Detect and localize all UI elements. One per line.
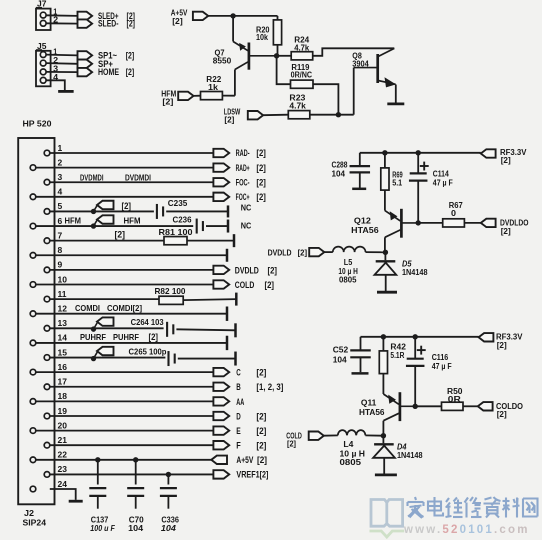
svg-text:HOME: HOME — [98, 67, 119, 77]
tag D — [213, 412, 229, 420]
wire Q8 base — [354, 67, 377, 69]
wire — [395, 85, 397, 103]
bar pin 15 — [234, 352, 237, 366]
svg-text:[1, 2, 3]: [1, 2, 3] — [256, 382, 283, 392]
svg-text:J2: J2 — [24, 508, 34, 518]
svg-text:20: 20 — [58, 420, 68, 430]
node R119/R23 junction — [336, 112, 341, 117]
capacitor C52 — [350, 349, 371, 351]
svg-text:NC: NC — [241, 220, 252, 230]
svg-text:0805: 0805 — [339, 274, 357, 284]
connector J2 pin 2 circle — [30, 165, 36, 171]
transistor Q11 base bar — [399, 392, 402, 421]
svg-text:DVDLD: DVDLD — [235, 265, 259, 275]
svg-text:PUHRF: PUHRF — [113, 332, 139, 342]
wire — [50, 210, 154, 212]
node C137 top — [95, 457, 100, 462]
bar pin 8 — [226, 249, 229, 262]
svg-text:[2]: [2] — [162, 97, 173, 107]
svg-text:17: 17 — [58, 377, 68, 387]
wire — [418, 222, 443, 224]
svg-text:[2]: [2] — [127, 19, 136, 29]
node pin15 — [91, 356, 96, 361]
svg-text:0: 0 — [451, 208, 456, 218]
connector J2 pin 3 circle — [44, 179, 50, 185]
bar pin 13 — [234, 323, 237, 337]
polarity + C116 — [417, 349, 426, 351]
tag F — [213, 441, 229, 449]
wire — [324, 434, 338, 436]
svg-text:C235: C235 — [168, 198, 188, 208]
wire — [167, 474, 169, 484]
connector J2 pin 14 circle — [30, 340, 36, 346]
svg-text:COMDI[2]: COMDI[2] — [107, 303, 142, 313]
connector J5 body — [36, 51, 51, 87]
svg-text:FOC+: FOC+ — [236, 192, 250, 202]
connector J2 pin 22 circle — [30, 457, 36, 463]
watermark hanzi xiu — [465, 497, 482, 518]
connector J2 pin 15 circle — [44, 355, 50, 361]
svg-text:AA: AA — [236, 397, 244, 407]
svg-text:SIP24: SIP24 — [23, 518, 47, 528]
svg-text:DVDLD: DVDLD — [268, 248, 292, 258]
svg-text:SLED-: SLED- — [98, 19, 119, 29]
capacitor C265 — [167, 351, 169, 366]
tag B — [213, 383, 229, 391]
svg-text:C52: C52 — [333, 345, 349, 355]
transistor Q7 base bar — [248, 43, 251, 70]
svg-text:7: 7 — [58, 230, 63, 240]
svg-text:[2]: [2] — [287, 438, 296, 448]
wire — [359, 153, 361, 166]
connector J7 pin 1 — [40, 12, 46, 18]
resistor R24 — [291, 52, 313, 60]
tag RF3.3V upper — [481, 149, 496, 157]
svg-text:4: 4 — [58, 187, 63, 197]
tag A+5V top — [193, 12, 208, 20]
tag LDSW — [248, 111, 263, 119]
svg-text:[2]: [2] — [501, 226, 511, 236]
wire — [463, 405, 478, 407]
svg-text:RAD-: RAD- — [236, 148, 250, 158]
svg-text:104: 104 — [161, 523, 176, 533]
node pin5 flag lead — [94, 205, 98, 211]
wire — [359, 172, 361, 188]
wire — [232, 16, 234, 42]
capacitor C288 — [350, 165, 371, 167]
connector J7 pin 2 — [40, 20, 46, 26]
svg-text:24: 24 — [58, 479, 68, 489]
connector J2 pin 20 circle — [30, 428, 36, 434]
tag A+5V pin22 — [211, 456, 227, 464]
svg-text:DVDMDI: DVDMDI — [80, 173, 104, 183]
svg-text:FOC-: FOC- — [236, 177, 250, 187]
svg-text:C236: C236 — [173, 214, 192, 224]
tag SP+ — [78, 60, 93, 68]
wire Q7 base — [250, 55, 277, 57]
svg-text:DVDMDI: DVDMDI — [125, 173, 151, 183]
node C336 top — [166, 472, 171, 477]
svg-text:8550: 8550 — [213, 56, 232, 66]
svg-text:[2]: [2] — [268, 265, 278, 275]
wire — [208, 15, 277, 17]
capacitor C236 — [196, 219, 198, 234]
ground pin 24 — [69, 500, 83, 503]
connector J2 pin 12 circle — [30, 311, 36, 317]
wire — [36, 254, 227, 256]
wire — [50, 181, 214, 183]
tag SLED- — [78, 19, 93, 27]
wire — [222, 95, 235, 97]
connector J2 pin 24 circle — [30, 486, 36, 492]
flag tag pin 13 — [97, 317, 114, 325]
tag COLDO — [478, 402, 493, 410]
svg-text:C264 103: C264 103 — [131, 317, 164, 327]
resistor R23 — [288, 111, 310, 119]
connector J2 pin 21 circle — [44, 442, 50, 448]
svg-text:RAD+: RAD+ — [236, 163, 250, 173]
wire — [277, 56, 291, 84]
svg-text:5.1R: 5.1R — [390, 350, 405, 360]
wire — [97, 460, 99, 485]
wire — [50, 489, 76, 500]
ground D4 — [375, 473, 397, 476]
svg-text:A+5V: A+5V — [236, 455, 253, 465]
wire — [166, 210, 228, 212]
svg-text:1: 1 — [58, 143, 63, 153]
wire — [50, 415, 214, 417]
wire — [36, 371, 214, 373]
tag DVDLD — [213, 266, 229, 274]
wire — [178, 358, 236, 360]
wire — [382, 421, 384, 436]
wire — [360, 357, 362, 372]
connector J5 pin 1 — [40, 52, 46, 58]
connector J5 pin 3 — [40, 69, 46, 75]
wire — [384, 252, 386, 260]
svg-text:R82 100: R82 100 — [155, 286, 186, 296]
svg-text:18: 18 — [58, 391, 68, 401]
ground Q8 — [387, 103, 404, 106]
svg-text:19: 19 — [58, 406, 68, 416]
tag VREF1 — [213, 470, 229, 478]
diode D5 — [376, 260, 396, 262]
node rail/R69 — [382, 150, 387, 155]
svg-text:[2]: [2] — [126, 67, 135, 77]
svg-text:C265 100p: C265 100p — [129, 347, 167, 357]
wire — [382, 337, 384, 351]
svg-text:NC: NC — [241, 202, 252, 212]
ground D5 — [377, 291, 397, 294]
svg-text:21: 21 — [58, 435, 68, 445]
connector J2 pin 7 circle — [44, 238, 50, 244]
wire — [313, 48, 395, 56]
wire — [36, 283, 214, 285]
wire — [313, 84, 338, 114]
connector J2 pin 10 circle — [30, 282, 36, 288]
svg-text:www.520101.com: www.520101.com — [403, 524, 530, 536]
wire — [50, 357, 166, 359]
connector J2 pin 16 circle — [30, 369, 36, 375]
node rail/C116 — [413, 334, 418, 339]
svg-text:R81 100: R81 100 — [159, 227, 193, 237]
wire — [50, 240, 164, 242]
wire — [206, 225, 228, 227]
wire — [50, 444, 214, 446]
wire — [50, 327, 164, 329]
svg-text:HP 520: HP 520 — [23, 118, 52, 128]
capacitor C116 — [407, 358, 424, 360]
wire — [324, 251, 333, 253]
svg-text:13: 13 — [58, 318, 68, 328]
connector J2 pin 8 circle — [30, 253, 36, 259]
svg-text:VREF1[2]: VREF1[2] — [236, 470, 268, 480]
svg-text:0R/NC: 0R/NC — [291, 70, 313, 80]
svg-text:HFM: HFM — [65, 216, 82, 226]
tag RAD- — [213, 149, 229, 157]
tag RF3.3V lower — [479, 333, 494, 341]
connector J2 pin 1 circle — [44, 150, 50, 156]
wire — [36, 225, 193, 227]
connector J2 pin 9 circle — [44, 267, 50, 273]
svg-text:HTA56: HTA56 — [351, 225, 379, 235]
svg-text:15: 15 — [58, 347, 68, 357]
wire — [135, 460, 137, 485]
NC bar pin 6 — [227, 220, 230, 233]
wire — [417, 181, 419, 223]
ground J5 pin4 — [58, 90, 74, 93]
svg-text:[2]: [2] — [256, 411, 266, 421]
resistor R42 — [379, 351, 387, 374]
transistor Q11 emitter — [383, 394, 398, 404]
connector J2 body — [18, 138, 54, 504]
connector J2 pin 4 circle — [30, 194, 36, 200]
svg-text:[2]: [2] — [256, 426, 266, 436]
svg-text:Q12: Q12 — [354, 216, 371, 226]
resistor R20 — [273, 20, 281, 45]
diode D4 — [374, 443, 394, 445]
svg-text:[2]: [2] — [256, 148, 266, 158]
connector J5 pin 4 — [40, 77, 46, 83]
capacitor C235 — [156, 204, 158, 219]
svg-text:[2]: [2] — [126, 50, 135, 60]
svg-text:8: 8 — [58, 245, 63, 255]
flag tag pin 15 — [97, 347, 114, 355]
svg-text:3: 3 — [58, 172, 63, 182]
wire — [50, 386, 214, 388]
resistor R69 — [381, 168, 389, 190]
transistor Q12 emitter — [385, 211, 400, 221]
svg-text:[2]: [2] — [497, 409, 507, 419]
resistor R81 — [164, 237, 187, 245]
wire — [384, 237, 386, 252]
bar pin 12 — [226, 307, 229, 321]
svg-text:1N4148: 1N4148 — [397, 450, 423, 460]
svg-text:5.1: 5.1 — [392, 177, 402, 187]
tag E — [213, 426, 229, 434]
svg-text:100 u F: 100 u F — [90, 523, 115, 533]
resistor R119 — [291, 80, 314, 88]
svg-text:[2]: [2] — [265, 280, 275, 290]
svg-text:[2]: [2] — [115, 229, 126, 239]
resistor R82 — [159, 296, 183, 304]
capacitor C70 — [127, 487, 144, 489]
wire — [36, 430, 214, 432]
watermark hanzi zi — [484, 497, 501, 518]
wire — [382, 374, 384, 394]
node pin6 flag lead — [94, 220, 98, 226]
watermark hanzi liao — [503, 498, 520, 518]
svg-text:104: 104 — [128, 523, 143, 533]
wire — [50, 152, 214, 154]
svg-text:1N4148: 1N4148 — [402, 267, 428, 277]
wire — [50, 298, 159, 300]
svg-text:B: B — [236, 382, 241, 392]
wire — [183, 299, 236, 300]
watermark hanzi wang — [523, 499, 538, 517]
connector J2 pin 5 circle — [44, 209, 50, 215]
svg-text:104: 104 — [332, 168, 346, 178]
tag HOME — [78, 68, 93, 76]
wire — [384, 153, 386, 168]
node Q12 base junction — [416, 220, 421, 225]
node pin13 — [91, 326, 96, 331]
svg-text:14: 14 — [58, 333, 68, 343]
wire — [353, 68, 355, 115]
connector J2 pin 13 circle — [44, 326, 50, 332]
tag FOC- — [213, 178, 229, 186]
wire — [36, 342, 227, 344]
svg-text:HTA56: HTA56 — [359, 407, 385, 417]
watermark book icon — [371, 500, 403, 527]
svg-text:3904: 3904 — [352, 58, 369, 68]
wire — [194, 95, 201, 97]
capacitor C114 — [410, 172, 427, 174]
svg-text:104: 104 — [333, 355, 347, 365]
wire — [97, 496, 99, 509]
wire — [360, 337, 362, 351]
node rail/R42 — [381, 334, 386, 339]
svg-text:[2]: [2] — [256, 192, 266, 202]
resistor R50 — [442, 402, 464, 410]
transistor Q11 collector — [383, 413, 398, 420]
svg-text:4.7k: 4.7k — [294, 42, 309, 52]
tag SP1~ — [78, 51, 93, 59]
wire — [417, 153, 419, 174]
bar pin 11 — [235, 293, 238, 306]
polarity + C114 — [420, 165, 429, 167]
tag COLD input — [309, 432, 324, 440]
transistor Q12 base bar — [400, 209, 403, 238]
transistor Q7 collector — [235, 62, 248, 70]
node L5/D5/Q12 — [383, 250, 388, 255]
flag tag pin 6 HFM — [97, 215, 114, 223]
wire — [36, 196, 214, 198]
wire — [167, 496, 169, 509]
wire — [360, 152, 481, 154]
wire — [46, 62, 77, 65]
svg-text:[2]: [2] — [256, 163, 266, 173]
node L4/D4/Q11 — [381, 433, 386, 438]
transistor Q7 emitter — [233, 42, 248, 51]
node pin5 — [91, 209, 96, 214]
wire — [36, 459, 212, 461]
wire — [263, 114, 288, 117]
svg-text:[2]: [2] — [122, 201, 132, 211]
capacitor C336 — [160, 487, 177, 489]
resistor R67 — [443, 219, 465, 227]
watermark hanzi dian — [428, 497, 443, 516]
wire — [310, 114, 354, 116]
svg-text:47 µ F: 47 µ F — [432, 361, 452, 371]
svg-text:2: 2 — [58, 157, 63, 167]
svg-text:[2]: [2] — [224, 114, 234, 124]
wire — [50, 473, 214, 475]
wire Q11 base — [401, 405, 416, 407]
wire — [382, 436, 384, 444]
svg-text:PUHRF: PUHRF — [80, 332, 106, 342]
svg-text:16: 16 — [58, 362, 68, 372]
wire — [36, 400, 214, 402]
svg-text:C: C — [236, 368, 241, 378]
connector J2 pin 23 circle — [44, 472, 50, 478]
wire — [415, 405, 441, 407]
svg-text:[2]: [2] — [257, 455, 267, 465]
ground C288 — [352, 188, 366, 191]
wire — [277, 45, 279, 56]
svg-text:[2]: [2] — [172, 16, 183, 26]
connector J2 pin 18 circle — [30, 399, 36, 405]
svg-text:4.7k: 4.7k — [289, 100, 306, 110]
transistor Q8 collector — [378, 48, 394, 56]
svg-text:[2]: [2] — [256, 177, 266, 187]
svg-text:12: 12 — [58, 304, 68, 314]
wire — [36, 313, 227, 315]
wire Q12 base — [402, 222, 418, 224]
transistor Q8 emitter — [378, 81, 395, 85]
node +5V junction — [230, 13, 235, 18]
tag DVDLD input — [309, 248, 324, 256]
wire — [361, 336, 479, 338]
wire — [46, 22, 77, 24]
wire — [414, 366, 416, 406]
transistor Q8 base bar — [376, 54, 379, 83]
wire — [384, 190, 386, 211]
tag FOC+ — [213, 193, 229, 201]
connector J5 pin 2 — [40, 60, 46, 66]
node pin13 flag lead — [94, 323, 98, 330]
connector J2 pin 17 circle — [44, 384, 50, 390]
svg-text:6: 6 — [58, 216, 63, 226]
node pin15 flag lead — [94, 352, 98, 359]
tag RAD+ — [213, 163, 229, 171]
wire — [277, 16, 279, 20]
wire — [365, 434, 383, 436]
wire — [46, 54, 77, 57]
wire — [46, 71, 77, 73]
svg-text:0805: 0805 — [340, 457, 362, 467]
tag AA — [213, 397, 229, 405]
svg-text:22: 22 — [58, 450, 68, 460]
wire — [385, 275, 387, 291]
wire — [46, 80, 65, 91]
svg-text:[2]: [2] — [256, 441, 266, 451]
svg-text:D: D — [236, 411, 241, 421]
capacitor C264 — [166, 322, 168, 337]
svg-text:5: 5 — [58, 201, 63, 211]
inductor L5 — [333, 247, 366, 253]
svg-text:9: 9 — [58, 260, 63, 270]
